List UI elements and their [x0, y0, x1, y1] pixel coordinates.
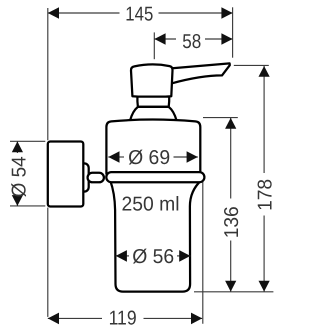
svg-text:145: 145 [125, 3, 153, 25]
spout extension line right (x=233) [232, 7, 234, 57]
dimension 145 arrow right [221, 7, 232, 19]
svg-text:250 ml: 250 ml [122, 194, 180, 216]
dimension 145 line [48, 12, 233, 14]
dimension 119 line [48, 317, 202, 319]
dimension O56 line [116, 255, 191, 257]
wall-mount boss [79, 163, 89, 191]
plate-bottom extension line (y=206) [10, 205, 45, 207]
svg-text:119: 119 [109, 308, 137, 328]
support arm [88, 173, 104, 183]
pump spout [168, 63, 230, 83]
dimension O54 arrow up [12, 141, 23, 152]
glass body [110, 181, 201, 292]
dimension 58 line [154, 38, 232, 40]
svg-text:Ø 54: Ø 54 [9, 156, 31, 197]
dimension O56 arrow right [179, 250, 190, 262]
dimension O56 arrow left [116, 250, 127, 262]
holder-top extension line (y=117.6) [203, 117, 238, 119]
dimension 58 arrow right [221, 33, 232, 45]
dimension 178 line [263, 66, 265, 292]
dimension 119 arrow left [48, 313, 59, 325]
dimension O54 arrow down [12, 195, 23, 206]
dimension 58 arrow left [154, 33, 165, 45]
spout-top extension line (y=65.4) [234, 64, 269, 66]
dimension 119 arrow right [191, 313, 202, 325]
dimension 136 arrow down [225, 281, 236, 292]
dimension 136 line [230, 118, 232, 292]
holder ring [106, 120, 200, 174]
svg-text:58: 58 [182, 31, 201, 53]
svg-text:178: 178 [254, 179, 275, 211]
dimension O69 arrow right [187, 151, 198, 163]
wall extension line left (x=48 top) [47, 8, 49, 140]
svg-text:Ø 69: Ø 69 [128, 147, 170, 169]
dimension O69 arrow left [108, 151, 119, 163]
pump cap [131, 64, 173, 97]
wall plate [48, 142, 84, 207]
svg-text:136: 136 [221, 206, 243, 238]
dimension 145 arrow left [48, 7, 59, 19]
pump-center extension line (x=154) [153, 32, 155, 59]
svg-text:Ø 56: Ø 56 [132, 246, 174, 268]
dimension 178 arrow down [259, 281, 270, 292]
glass-bottom extension line (y=292) [194, 291, 273, 293]
dimension O54 line [16, 141, 18, 206]
pump skirt [130, 107, 177, 121]
dimension 136 arrow up [225, 118, 236, 129]
glass-right extension line (x=201 bottom) [202, 182, 204, 324]
dimension 178 arrow up [259, 66, 270, 77]
dimension O69 line [108, 156, 198, 158]
holder lip [106, 172, 204, 182]
plate-top extension line (y=141) [10, 140, 45, 142]
wall extension line left (x=48 bottom) [47, 208, 49, 317]
pump neck [137, 97, 169, 107]
